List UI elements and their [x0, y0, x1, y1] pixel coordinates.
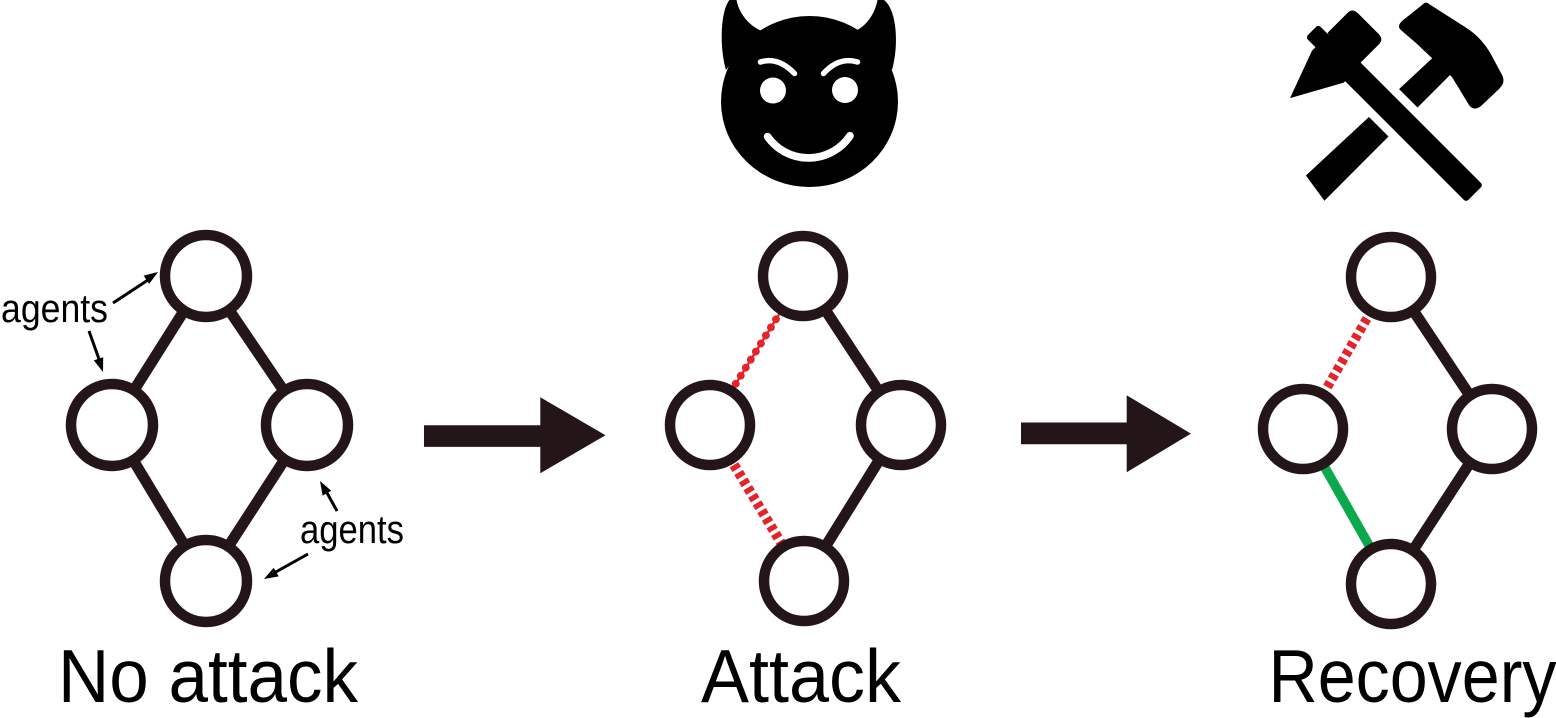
pointer arrow: upper agents label to top node — [113, 280, 148, 303]
left hammer — [1267, 0, 1506, 238]
svg-text:No attack: No attack — [58, 634, 358, 718]
node: middle diagram top — [763, 236, 843, 316]
pointer arrow: lower agents label to bottom node — [274, 554, 308, 573]
wire: middle top-right edge (solid) — [803, 276, 901, 425]
devil right horn — [855, 0, 896, 70]
svg-text:agents: agents — [1, 287, 108, 331]
node: middle diagram bottom — [764, 541, 844, 621]
big arrow 2 (between middle and right diagrams) — [1021, 395, 1191, 472]
wire: middle bottom-right edge (solid) — [804, 425, 901, 581]
devil left eyebrow — [761, 61, 795, 74]
node: right diagram bottom — [1351, 544, 1431, 624]
left hammer wedge — [1277, 32, 1362, 117]
wire: right top-right edge (solid) — [1391, 277, 1492, 429]
devil right eyebrow — [824, 61, 858, 74]
pointer arrow: lower agents label to right node — [326, 491, 337, 511]
svg-text:agents: agents — [300, 508, 404, 552]
devil left horn — [722, 0, 762, 70]
node: left diagram right — [266, 384, 348, 466]
big arrow 1 (between left and middle diagrams) — [424, 397, 606, 473]
node: middle diagram left — [670, 385, 750, 465]
pointer arrow: upper agents label to left node — [89, 331, 100, 362]
white stripe crossing gap — [1353, 72, 1439, 158]
wire: left bottom-right edge (right node to bottom node) — [206, 425, 307, 581]
left hammer handle — [1322, 41, 1483, 202]
devil left eye — [760, 78, 786, 104]
wire: middle top-left edge thin red line — [710, 276, 803, 425]
node: right diagram left — [1263, 389, 1343, 469]
svg-text:Attack: Attack — [701, 634, 901, 718]
right hammer handle — [1306, 51, 1457, 200]
node: right diagram top — [1351, 237, 1431, 317]
wire: middle top-left edge red dotted (attacked) — [710, 276, 803, 425]
wire: right bottom-left edge green solid (recovered) — [1303, 429, 1391, 584]
right hammer head — [1399, 3, 1503, 109]
hammers icon above right diagram — [1267, 0, 1506, 238]
devil face — [721, 16, 898, 187]
node: right diagram right — [1452, 389, 1532, 469]
devil smile — [768, 136, 850, 158]
devil icon above middle diagram — [721, 0, 898, 187]
svg-text:Recovery: Recovery — [1269, 634, 1556, 718]
node: left diagram bottom — [165, 540, 247, 622]
node: left diagram top — [165, 235, 247, 317]
wire: middle bottom-left edge red dashed (attacked) — [710, 425, 804, 581]
devil right eye — [832, 77, 858, 103]
left hammer knob — [1306, 25, 1332, 51]
wire: right top-left edge red dashed (still broken) — [1303, 277, 1391, 429]
node: middle diagram right — [861, 385, 941, 465]
node: left diagram left — [71, 384, 153, 466]
wire: left bottom-left edge (left node to bottom node) — [112, 425, 206, 581]
wire: left top-left edge (top node to left node) — [112, 276, 206, 425]
wire: right bottom-right edge (solid) — [1391, 429, 1492, 584]
wire: left top-right edge (top node to right node) — [206, 276, 307, 425]
left hammer head block — [1327, 8, 1383, 64]
